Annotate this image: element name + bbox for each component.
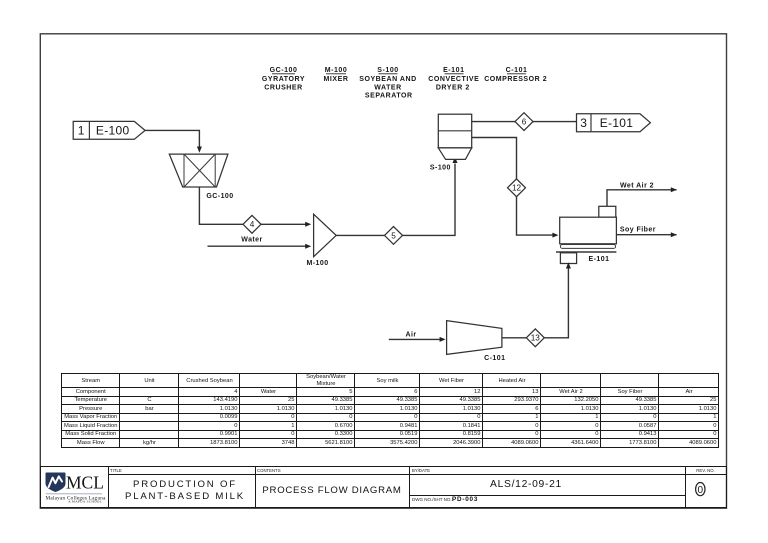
- title block header strip line: [108, 474, 727, 475]
- wire stream 12 separator to dryer: [472, 138, 559, 238]
- separator S-100: [438, 114, 471, 159]
- title block divider logo/title: [108, 466, 109, 508]
- stream tag 1 E-100: [73, 121, 145, 139]
- dwg number PD-003: [452, 496, 478, 503]
- equipment title label E-101 CONVECTIVE DRYER 2: [428, 67, 479, 91]
- label CONTENTS: [257, 468, 281, 473]
- convective dryer E-101: [556, 206, 616, 263]
- stream diamond 12: [508, 179, 526, 197]
- label TITLE: [110, 468, 122, 473]
- wire soy fiber outlet: [616, 232, 676, 237]
- stream data table: [61, 373, 719, 448]
- label REV. NO.: [685, 468, 726, 473]
- wire stream 13 compressor to dryer: [502, 262, 571, 338]
- title block: [40, 466, 727, 508]
- wire stream 4 crusher to mixer: [199, 187, 311, 227]
- stream tag 3 E-101: [577, 114, 651, 132]
- dwg no text: [412, 497, 453, 502]
- stream diamond 13: [526, 329, 544, 347]
- equipment title label M-100 MIXER: [324, 67, 349, 83]
- dwg row divider: [409, 495, 685, 496]
- svg-text:MCL: MCL: [66, 472, 104, 492]
- label BY/DATE: [412, 468, 430, 473]
- title block divider bydate/rev: [685, 466, 686, 508]
- wire wet air 2 outlet: [607, 187, 677, 206]
- wire stream 6 separator to tag 3: [472, 121, 577, 123]
- title block divider contents/bydate: [409, 466, 410, 508]
- wire stream 1 from tag to crusher: [145, 130, 202, 152]
- compressor C-101: [447, 321, 502, 355]
- equipment title label C-101 COMPRESSOR 2: [484, 67, 547, 83]
- stream diamond 5: [385, 227, 403, 245]
- mixer M-100: [314, 214, 337, 257]
- gyratory crusher GC-100: [169, 154, 228, 187]
- contents text PROCESS FLOW DIAGRAM: [255, 485, 409, 496]
- wire air feed to compressor: [389, 337, 446, 342]
- wire water feed to mixer: [208, 244, 312, 249]
- wire stream 5 mixer to separator: [336, 157, 457, 236]
- bydate text ALS/12-09-21: [456, 479, 596, 490]
- svg-text:A MAPÚA SCHOOL: A MAPÚA SCHOOL: [68, 499, 102, 504]
- stream diamond 4: [243, 215, 261, 233]
- stream diamond 6: [515, 113, 533, 131]
- title text PRODUCTION OF PLANT-BASED MILK: [112, 479, 258, 504]
- title block divider title/contents: [255, 466, 256, 508]
- equipment title label S-100 SOYBEAN AND WATER SEPARATOR: [359, 67, 417, 99]
- equipment title label GC-100 GYRATORY CRUSHER: [262, 67, 305, 91]
